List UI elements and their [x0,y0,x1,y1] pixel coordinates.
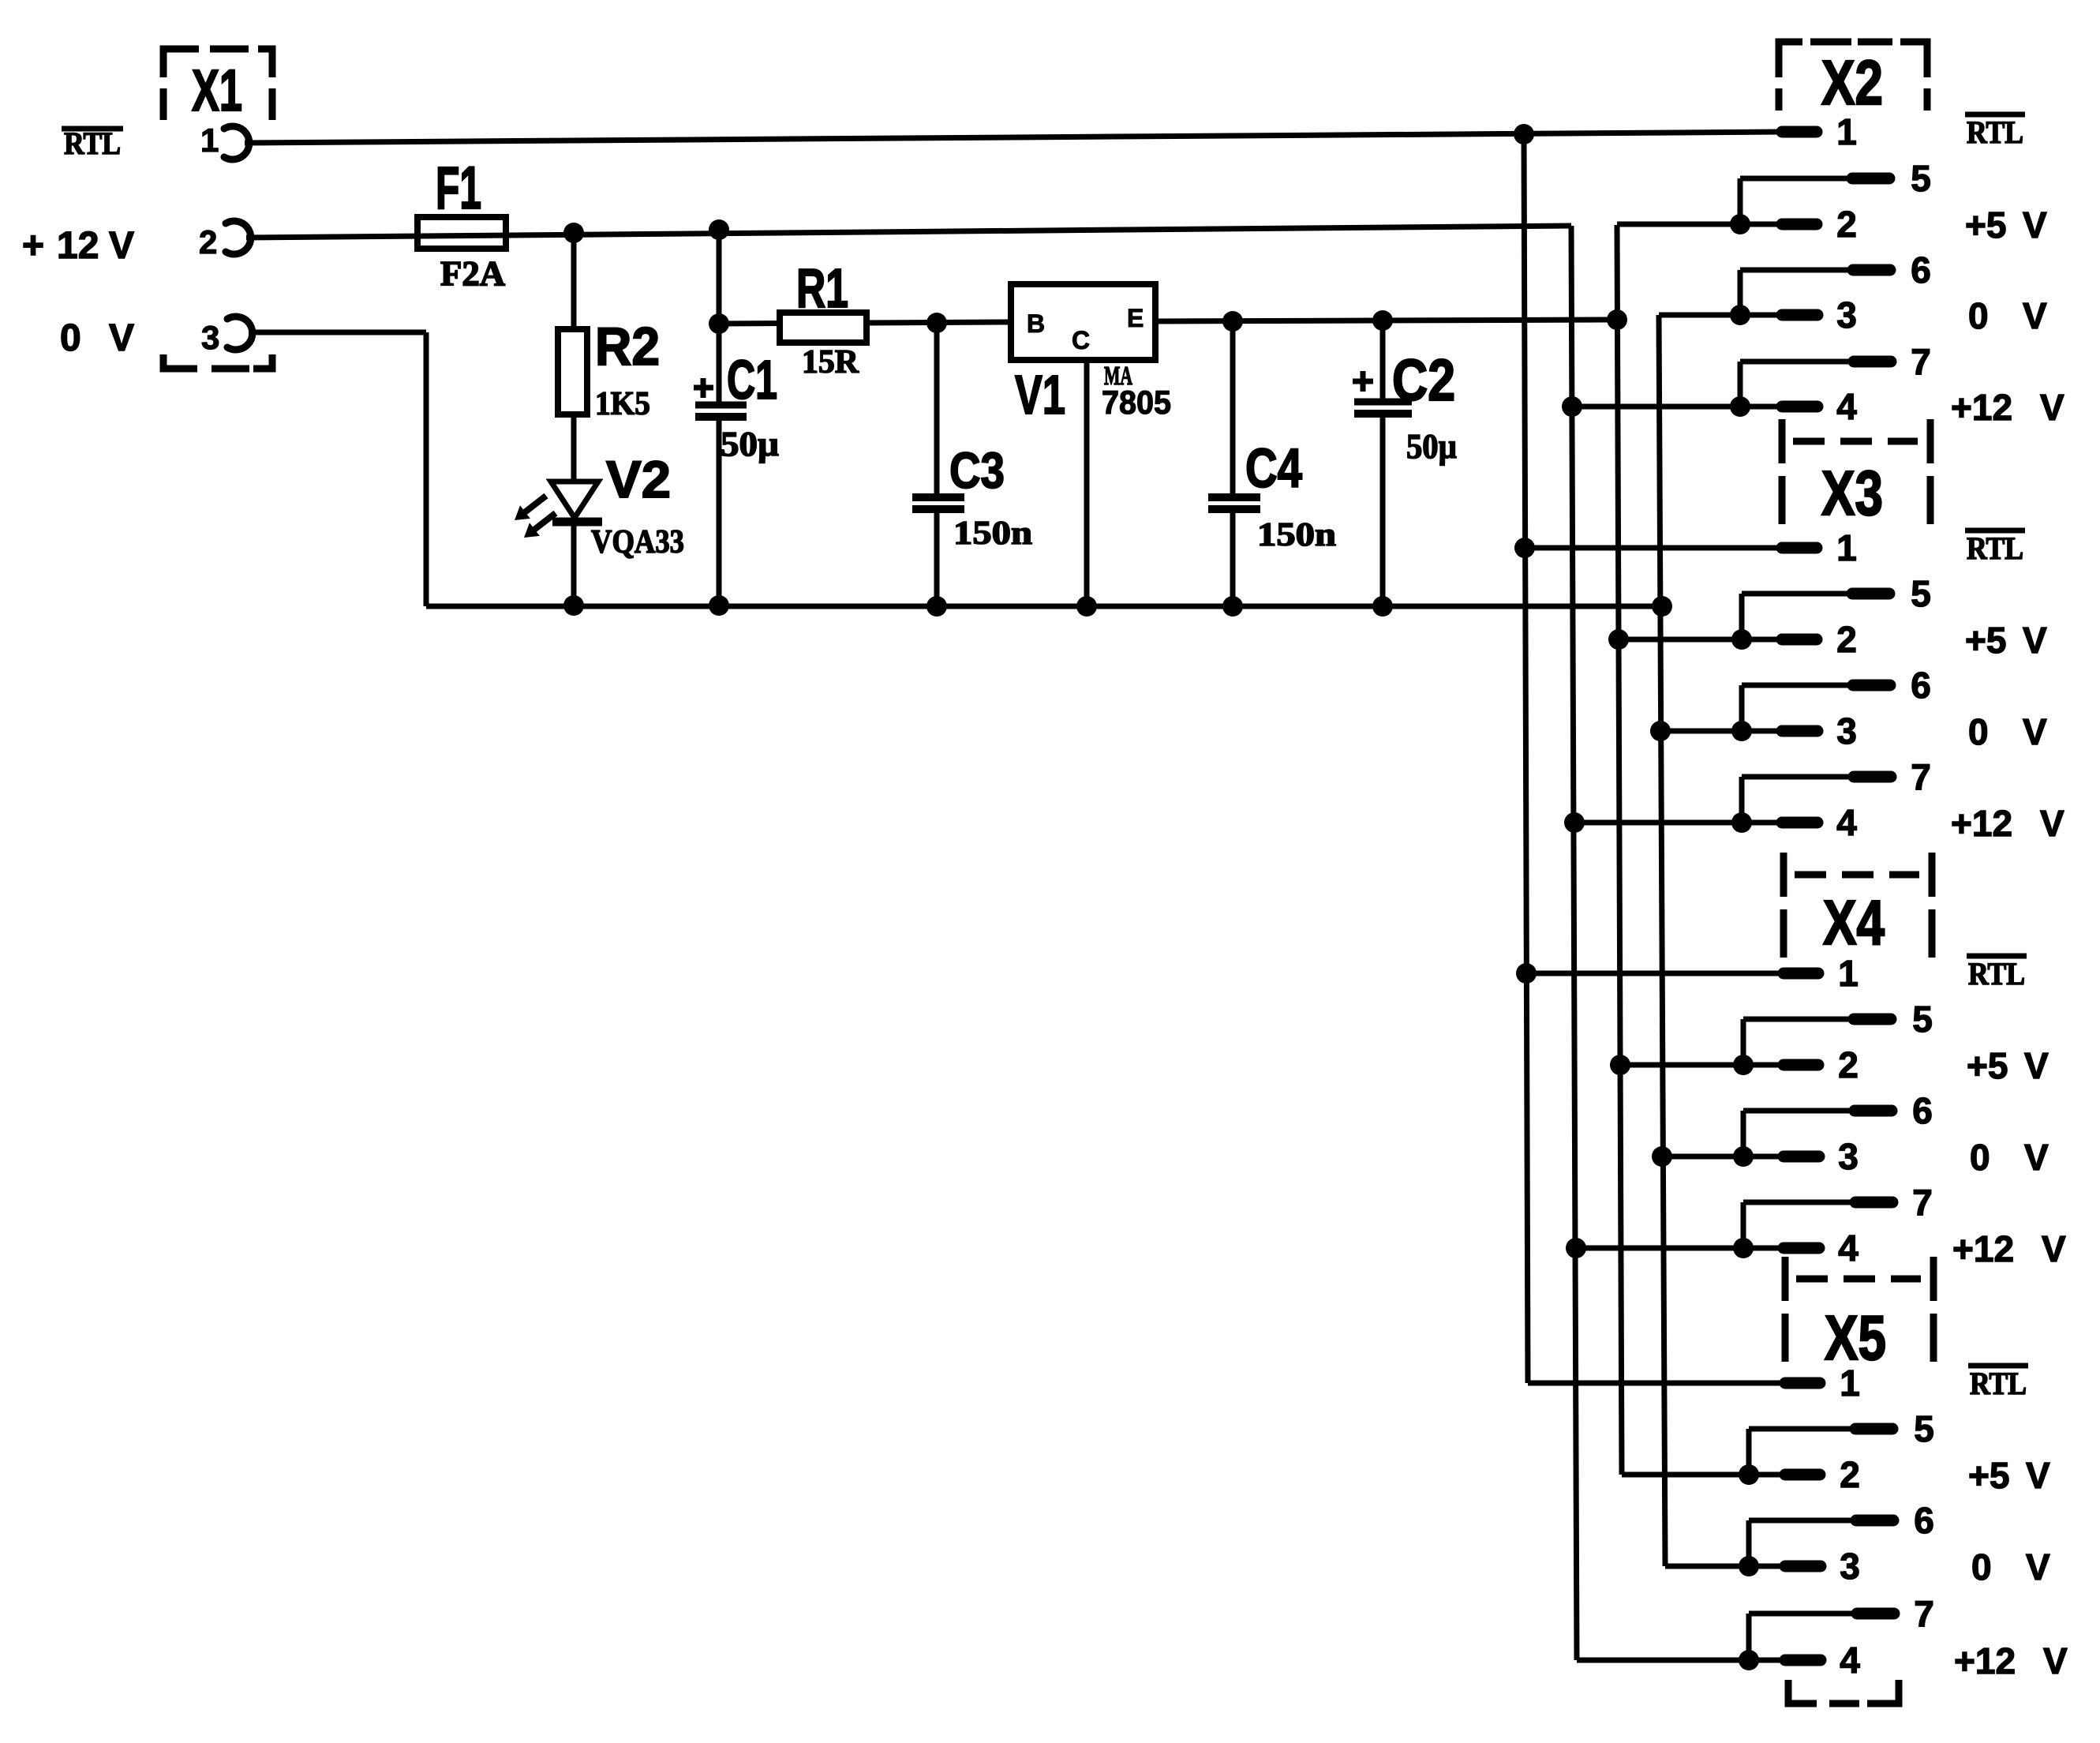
svg-text:V: V [2023,295,2047,336]
svg-text:150n: 150n [1257,517,1336,553]
X2 pin 1 [1782,111,1857,152]
node +5V label at X4 [1967,1045,2049,1086]
svg-text:R1: R1 [796,257,848,319]
junction RTL bus/X3 pin1 [1514,538,1535,558]
junction X2 pin7/pin4 [1730,396,1750,417]
wire +5V from V1 E pin to +5V bus [1155,320,1617,321]
svg-text:C1: C1 [727,349,777,410]
X5 pin 3 [1665,1546,1860,1587]
X3 pin 6 [1742,665,1931,731]
svg-text:RTL: RTL [1967,530,2023,566]
wire C4 top [1230,321,1236,493]
junction +5V bus/X4 pin2 [1610,1055,1630,1075]
X4 pin 5 [1743,999,1933,1065]
junction X3 pin7/pin4 [1731,812,1752,833]
svg-text:7: 7 [1914,1593,1934,1634]
junction RTL bus/X4 pin1 [1516,963,1537,984]
wire C2 top [1380,320,1386,399]
svg-text:R2: R2 [595,317,660,377]
wire 0V from X1 pin3 to corner [249,330,426,335]
resistor R1 [780,313,867,343]
svg-text:6: 6 [1912,1090,1933,1131]
LED V2 cathode bar [552,518,602,527]
node +5V label at X2 [1965,204,2047,246]
junction 0V bus/X4 pin3 [1652,1146,1672,1167]
svg-text:X2: X2 [1821,47,1883,118]
svg-text:+5: +5 [1968,1455,2009,1496]
svg-text:3: 3 [1838,1136,1859,1177]
regulator V1 box [1011,284,1155,360]
svg-text:2: 2 [199,223,217,261]
resistor R2 [558,329,587,414]
junction X5 pin7/pin4 [1739,1650,1759,1670]
svg-text:V1: V1 [1015,364,1065,425]
X4 pin 2 [1620,1044,1859,1085]
junction C2/0V rail [1372,596,1393,617]
X3 pin 4 [1574,802,1857,843]
svg-text:V: V [2023,711,2047,752]
junction X5 pin5/pin2 [1739,1464,1759,1485]
X4 pin 3 [1662,1136,1859,1177]
svg-text:RTL: RTL [1970,1366,2027,1401]
connector X5 bottom dashed outline [1788,1680,1899,1704]
svg-text:5: 5 [1914,1408,1934,1449]
svg-text:4: 4 [1836,386,1857,427]
X2 pin 3 [1659,294,1857,335]
node RTL (X1 side) label [62,126,123,161]
junction C1/R1 [709,313,729,334]
X4 pin 7 [1743,1182,1933,1248]
junction 0V bus/X3 pin3 [1650,721,1671,741]
node +12V label at X4 [1952,1228,2066,1269]
svg-text:V: V [2026,1455,2050,1496]
svg-text:X3: X3 [1821,458,1883,528]
svg-text:6: 6 [1914,1500,1934,1541]
junction R1/C3 [926,313,947,333]
junction E-line/+5V bus [1607,309,1627,330]
svg-text:V: V [2040,387,2064,428]
svg-text:5: 5 [1911,573,1931,614]
svg-text:VQA33: VQA33 [591,524,684,560]
svg-text:3: 3 [1836,294,1857,335]
svg-text:0: 0 [1968,711,1989,752]
svg-text:+12: +12 [1951,803,2012,844]
junction C1/0V rail [709,595,729,616]
svg-text:V: V [2023,620,2047,661]
wire C3 bottom [934,513,940,606]
wire +12V bus vertical [1571,226,1577,1660]
node 0V label at X4 [1970,1137,2049,1178]
svg-text:2: 2 [1838,1044,1859,1085]
junction X4 pin5/pin2 [1733,1055,1754,1075]
X1 pin 3 [201,317,253,356]
wire C3 top [934,323,940,493]
svg-text:+: + [22,225,44,267]
X5 pin 6 [1749,1500,1934,1566]
svg-text:12: 12 [57,225,99,267]
svg-text:X4: X4 [1823,887,1885,958]
svg-text:6: 6 [1911,249,1931,290]
svg-text:+12: +12 [1954,1640,2016,1681]
node +12V (X1 side) label [22,225,134,267]
svg-text:15R: 15R [802,344,859,380]
X4 pin 6 [1743,1090,1933,1156]
svg-text:C2: C2 [1392,347,1455,413]
svg-text:4: 4 [1840,1640,1860,1681]
X2 pin 6 [1740,249,1931,315]
junction E-line/C2 [1372,310,1393,331]
X3 pin 7 [1742,756,1931,823]
wire R1 line from C1 to V1 input B [719,322,1011,324]
svg-text:2: 2 [1840,1454,1860,1495]
svg-text:F1: F1 [436,155,481,222]
capacitor C3 plates [912,497,964,509]
wire C1 bottom [717,421,722,606]
svg-text:V: V [2042,1228,2066,1269]
junction X3 pin6/pin3 [1731,721,1752,741]
junction +12V bus/X4 pin4 [1566,1238,1586,1258]
svg-text:V: V [2040,803,2064,844]
svg-text:V: V [2026,1546,2050,1587]
LED V2 triangle [551,482,598,518]
svg-text:V: V [2043,1640,2068,1681]
capacitor C2 plates [1354,402,1412,414]
junction +5V bus/X3 pin2 [1608,629,1629,650]
wire C4 bottom [1230,513,1236,606]
wire RTL from X1 pin1 to X2 pin1 [245,132,1781,143]
wire V2 to 0V rail [571,522,577,606]
svg-text:5: 5 [1911,158,1931,199]
node 0V label at X2 [1968,295,2047,336]
svg-text:V2: V2 [606,450,671,508]
X4 pin 4 [1576,1228,1859,1269]
wire R2 to V2 [571,411,577,483]
svg-text:2: 2 [1836,619,1857,660]
svg-text:C: C [1072,326,1090,354]
connector X4 dashed outline [1784,853,1932,958]
node 0V (X1 side) label [60,317,134,359]
X2 pin 7 [1740,341,1931,407]
X1 pin 2 [199,221,251,261]
connector X1 dashed outline [163,49,272,369]
junction X5 pin6/pin3 [1739,1556,1759,1576]
capacitor C4 plates [1208,497,1260,509]
X1 pin 1 [200,122,249,159]
X2 pin 4 [1572,386,1857,427]
LED V2 emission arrow 2 [524,511,558,538]
fuse F1 [417,217,506,249]
svg-text:4: 4 [1836,802,1857,843]
svg-text:F2A: F2A [440,254,505,293]
svg-text:+12: +12 [1951,387,2012,428]
svg-text:B: B [1027,309,1045,338]
svg-text:E: E [1127,304,1144,332]
wire 0V bus vertical [1659,315,1665,1566]
junction RTL wire / RTL bus [1514,124,1534,144]
svg-text:V: V [2024,1137,2049,1178]
junction 0V rail/0V bus [1652,596,1672,617]
svg-text:V: V [109,225,134,267]
wire 0V vertical drop [424,332,429,606]
svg-text:6: 6 [1911,665,1931,706]
junction X2 pin5/pin2 [1730,214,1750,234]
wire +12V from X1 pin2 through fuse to +12V bus corner [246,226,1571,238]
node +5V label at X5 [1968,1455,2050,1496]
svg-text:1: 1 [1836,111,1857,152]
X5 pin 1 [1528,1363,1860,1404]
svg-text:+5: +5 [1965,620,2006,661]
svg-text:7: 7 [1911,756,1931,797]
capacitor C1 plates [695,405,747,417]
svg-text:50µ: 50µ [1406,427,1457,466]
X3 pin 3 [1660,710,1857,752]
svg-text:3: 3 [1840,1546,1860,1587]
X5 pin 4 [1577,1640,1860,1681]
X4 pin 1 [1526,953,1859,994]
junction X2 pin6/pin3 [1730,305,1750,325]
svg-text:3: 3 [201,319,219,356]
X2 pin 5 [1740,158,1931,224]
junction +12V bus/X3 pin4 [1564,812,1585,833]
capacitor C1 plus sign [694,378,713,398]
X5 pin 5 [1749,1408,1934,1475]
svg-text:C3: C3 [949,442,1005,499]
svg-text:1: 1 [1840,1363,1860,1404]
wire 0V bottom rail [426,604,1662,609]
connector X5 dashed outline [1785,1257,1933,1362]
junction +12V/R2 [563,223,584,243]
svg-text:+5: +5 [1967,1045,2008,1086]
wire RTL bus vertical [1524,134,1528,1383]
node RTL label at X2 [1965,114,2025,150]
svg-text:V: V [2023,204,2047,246]
node +12V label at X3 [1951,803,2064,844]
svg-text:RTL: RTL [1968,956,2025,991]
svg-text:7: 7 [1911,341,1931,382]
svg-text:150n: 150n [953,515,1032,552]
svg-text:V: V [2024,1045,2049,1086]
wire R2 branch from +12V rail [571,231,577,332]
svg-text:1: 1 [200,122,219,159]
X5 pin 2 [1622,1454,1860,1495]
node +5V label at X3 [1965,620,2047,661]
junction X3 pin5/pin2 [1731,629,1752,650]
svg-text:+12: +12 [1952,1228,2014,1269]
junction +12V/C1 [709,219,729,240]
wire C2 bottom [1380,418,1386,606]
svg-text:4: 4 [1838,1228,1859,1269]
X3 pin 2 [1619,619,1857,660]
X2 pin 2 [1617,204,1857,245]
svg-text:V: V [109,317,134,359]
node RTL label at X5 [1968,1366,2028,1401]
svg-text:2: 2 [1836,204,1857,245]
X5 pin 7 [1749,1593,1934,1660]
junction V1-C/0V rail [1076,596,1097,617]
connector X2 dashed outline [1779,42,1927,111]
svg-text:50µ: 50µ [721,425,779,463]
svg-text:0: 0 [1968,295,1989,336]
node RTL label at X3 [1965,530,2025,566]
junction +12V bus/X2 pin4 [1562,396,1582,417]
node +12V label at X5 [1954,1640,2068,1681]
svg-text:+5: +5 [1965,204,2006,246]
wire +5V bus vertical [1617,225,1622,1475]
junction X4 pin6/pin3 [1733,1146,1754,1167]
node 0V label at X3 [1968,711,2047,752]
junction X4 pin7/pin4 [1733,1238,1754,1258]
svg-text:3: 3 [1836,710,1857,752]
svg-text:7805: 7805 [1102,384,1171,421]
LED V2 emission arrow 1 [515,493,548,520]
node +12V label at X2 [1951,387,2064,428]
wire C1 top [717,229,722,403]
svg-text:0: 0 [1970,1137,1990,1178]
svg-text:5: 5 [1912,999,1933,1040]
capacitor C2 plus sign [1353,371,1373,392]
svg-text:1K5: 1K5 [595,386,650,422]
junction V2/0V rail [563,595,584,616]
svg-text:1: 1 [1838,953,1859,994]
node RTL label at X4 [1967,956,2027,991]
junction E-line/C4 [1222,311,1243,332]
svg-text:C4: C4 [1245,437,1302,499]
node 0V label at X5 [1971,1546,2050,1587]
svg-text:1: 1 [1836,527,1857,568]
X3 pin 1 [1525,527,1857,568]
junction C3/0V rail [926,596,947,617]
svg-text:0: 0 [60,317,81,359]
X3 pin 5 [1742,573,1931,639]
svg-text:RTL: RTL [1967,114,2023,150]
junction C4/0V rail [1222,596,1243,617]
svg-text:X1: X1 [192,58,242,123]
svg-text:0: 0 [1971,1546,1992,1587]
svg-text:7: 7 [1912,1182,1933,1223]
wire V1 C pin to 0V rail [1084,360,1090,606]
connector X3 dashed outline [1782,419,1930,524]
